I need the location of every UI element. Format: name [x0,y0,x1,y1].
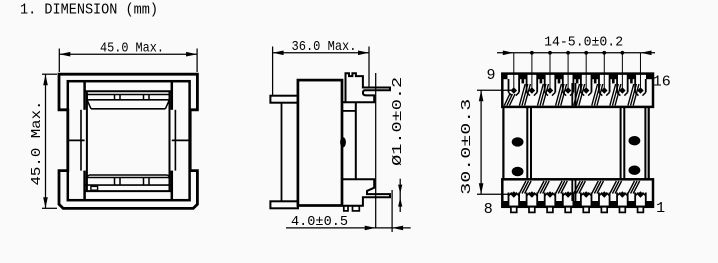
pin 1 (bottom row) [634,193,636,207]
svg-text:30.0±0.3: 30.0±0.3 [459,99,475,195]
pin 3 (bottom row) [598,193,600,207]
pin 10 (top row) [526,79,528,92]
top bar center divider [571,83,573,107]
bottom winding boundary [89,174,168,176]
bobbin barrel left edge [86,91,88,191]
svg-text:16: 16 [653,74,671,91]
foot-body join [342,101,346,103]
bobbin body (side view) [298,80,342,205]
svg-text:8: 8 [484,201,493,218]
bobbin bottom flange edge [85,190,172,192]
svg-text:9: 9 [486,67,495,84]
svg-text:1: 1 [656,200,665,217]
svg-text:Ø1.0±0.2: Ø1.0±0.2 [390,77,406,166]
top bar band blocks [502,74,507,79]
winding right edge [174,110,176,171]
pin 7 (bottom row) [526,193,528,207]
bottom pin bar (pins 8-1) [502,179,653,207]
core window right edge [171,81,174,110]
pin 6 (bottom row) [544,193,546,207]
pin 15 (top row) [616,79,618,92]
pin flange top block with pin [346,73,391,102]
svg-text:45.0 Max.: 45.0 Max. [29,101,45,186]
pin 16 (top row) [634,79,636,92]
pin 12 (top row) [562,79,564,92]
bottom bar band blocks [502,201,508,207]
svg-text:14-5.0±0.2: 14-5.0±0.2 [544,35,623,51]
core edge (side) [281,103,283,202]
pin 13 (top row) [580,79,582,92]
top pin bar (pins 9-16) [502,74,653,107]
bobbin bottom notch tab [91,186,98,190]
bottom bar center divider [571,179,573,201]
left side rail [502,107,504,179]
flange right edge (middle) [355,102,357,179]
flange bottom tab 1 [344,206,348,211]
core bottom tab (side) [270,201,298,208]
bobbin barrel right edge [169,91,171,191]
core parting line left leg [68,139,85,141]
wire hatch bottom bar [519,181,526,194]
bobbin top flange edge [85,90,172,92]
pin 4 (bottom row) [580,193,582,207]
winding left edge [80,110,82,171]
pin flange bottom block with pin [342,179,390,206]
svg-text:1. DIMENSION (mm): 1. DIMENSION (mm) [20,2,158,19]
pin 9 (top row) [508,79,510,92]
pin 14 (top row) [598,79,600,92]
core top tab (side) [270,96,298,103]
pin 5 (bottom row) [562,193,564,207]
bottom tape band [86,177,170,179]
top tape band [87,94,169,96]
winding wire dot (side) [340,137,346,147]
pin 8 (bottom row) [508,193,510,207]
flange step line [342,110,356,112]
core ovals [512,137,524,146]
wire hatch top bar [519,84,525,106]
right side rail [620,107,622,179]
core parting line right leg [172,139,190,141]
flange bottom tab 2 [353,206,360,211]
top winding boundary [91,108,165,110]
pin 11 (top row) [544,79,546,92]
core window left edge [83,81,86,110]
pin 2 (bottom row) [616,193,618,207]
core inner outline [68,81,190,200]
core outer outline (front view) [59,74,197,208]
